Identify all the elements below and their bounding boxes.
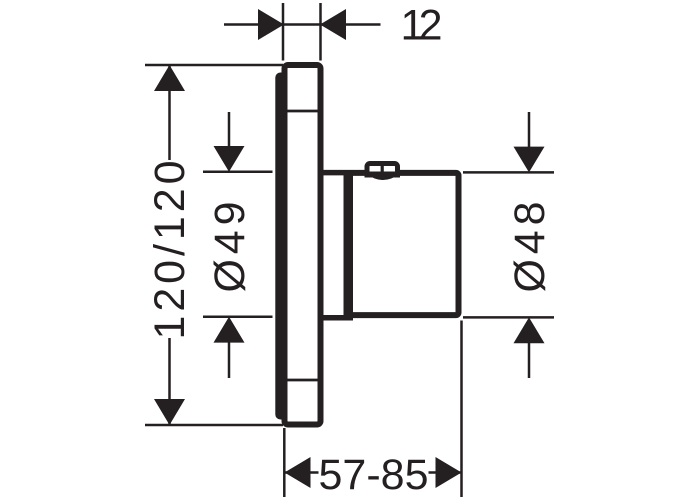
handle top edge bump under tab: [367, 174, 400, 180]
dim 12: left extension line: [282, 3, 285, 61]
dim diameter 48: bottom extension line: [463, 316, 554, 319]
dim 57-85: left extension line: [283, 428, 286, 497]
dim 120/120: bottom extension line: [145, 424, 283, 427]
dim 120/120: dimension line lower segment: [168, 338, 171, 425]
safety tab divider: [381, 164, 384, 172]
dim 57-85: right arrow: [436, 457, 462, 488]
safety tab base merge with handle edge: [365, 172, 401, 178]
handle body outline: [348, 173, 459, 315]
dim diameter 49: top extension line: [203, 171, 273, 174]
neck bottom edge between plate and handle: [321, 315, 350, 321]
svg-text:12: 12: [401, 2, 443, 50]
dim 120/120: dimension line upper segment: [168, 65, 171, 160]
dim diameter 49: bottom extension line: [203, 316, 273, 319]
dim 120/120: bottom arrow: [154, 399, 185, 425]
dim diameter 48: bottom stem: [528, 342, 531, 378]
dim 57-85: dimension line right segment: [429, 471, 462, 474]
dim diameter 48: top arrow: [514, 147, 545, 173]
wall sleeve bar (behind escutcheon plate): [275, 73, 286, 420]
svg-text:57-85: 57-85: [319, 451, 429, 499]
dim diameter 48: top extension line: [463, 171, 554, 174]
svg-text:Ø48: Ø48: [506, 202, 554, 293]
dim 57-85: left arrow: [285, 457, 311, 488]
dim 120/120: top arrow: [154, 65, 185, 91]
dim 120/120: top extension line: [145, 64, 283, 67]
dim 12: left arrow: [258, 9, 284, 40]
handle left face thick bar: [344, 170, 354, 321]
dim 57-85: right extension line: [460, 321, 463, 498]
escutcheon plate outline: [285, 65, 321, 425]
dim diameter 48: top stem: [528, 112, 531, 147]
svg-text:Ø49: Ø49: [206, 202, 254, 293]
dim 57-85: dimension line left segment: [284, 471, 318, 474]
dim diameter 49: bottom arrow: [214, 317, 245, 343]
dim diameter 49: top stem: [228, 112, 231, 147]
plate interior line lower: [287, 379, 318, 382]
neck top edge between plate and handle: [321, 170, 350, 176]
safety tab on handle top: [367, 164, 398, 175]
dim diameter 49: bottom stem: [228, 342, 231, 378]
dim diameter 48: bottom arrow: [514, 317, 545, 343]
dim diameter 49: top arrow: [214, 146, 245, 172]
dim 12: right arrow: [320, 9, 346, 40]
plate interior line upper: [287, 110, 318, 113]
dim 12: dimension line: [224, 23, 381, 26]
dim 12: right extension line: [319, 3, 322, 61]
